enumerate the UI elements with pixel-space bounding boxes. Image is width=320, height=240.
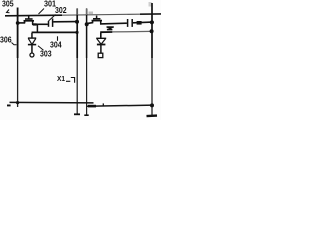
wire Q2 drain to C2 <box>100 22 127 25</box>
D2 cathode stem <box>100 45 102 53</box>
node wire N1 <box>32 31 78 33</box>
scan line right <box>140 13 161 15</box>
wire Q2 source to V3 <box>87 23 94 24</box>
column line V2 upper <box>76 9 78 59</box>
V2 foot <box>74 113 80 115</box>
leader from 302 <box>49 15 56 22</box>
C1 left plate <box>48 21 50 27</box>
Q1 gate stub <box>28 16 30 19</box>
D1 cathode bar <box>28 44 36 46</box>
rail B left blob <box>88 105 96 108</box>
small element under Q2 drain wire (hourglass) <box>107 26 114 30</box>
capacitor C1 (302) <box>49 19 53 27</box>
Q1 drain leg <box>32 21 34 24</box>
scan line 305 (horizontal) <box>5 14 62 17</box>
junction V2/node wire <box>75 31 78 34</box>
junction V1/rail A <box>16 101 19 104</box>
wire C1 to V2 <box>53 21 77 23</box>
diode D2 <box>96 38 106 53</box>
Q2 channel bar <box>92 20 103 22</box>
column line V2 lower <box>76 58 78 114</box>
leader from 306 <box>12 43 17 45</box>
Q2 gate bar <box>93 18 100 20</box>
junction V2/cap wire <box>75 20 79 24</box>
Q1 channel bar <box>24 20 35 22</box>
Q2 source leg <box>92 21 94 23</box>
transistor Q2 <box>92 16 103 24</box>
terminal circle under D1 <box>30 53 34 57</box>
leader from 301 <box>39 9 45 15</box>
blob on C2 wire <box>137 21 142 25</box>
V3 foot <box>84 114 88 116</box>
junction V4/rail B <box>150 103 154 107</box>
svg-text:306: 306 <box>0 35 12 44</box>
scan line middle (faint) <box>62 14 140 15</box>
C2 left plate <box>127 19 129 27</box>
node wire N2 <box>100 31 112 33</box>
D1 cathode stem <box>31 45 33 53</box>
junction V1/source wire <box>16 21 20 25</box>
D1 triangle right side <box>32 38 36 44</box>
svg-text:X1: X1 <box>57 74 66 83</box>
data line V1 (306) upper <box>17 8 19 59</box>
C2 right plate <box>131 19 133 27</box>
wire C2 to V4 <box>133 21 153 24</box>
D2 triangle right side <box>101 39 105 44</box>
svg-text:303: 303 <box>40 50 52 59</box>
junction V4/cap wire <box>150 20 154 24</box>
V2 top faint <box>76 9 78 15</box>
data line V1 (306) lower <box>17 58 19 107</box>
Q1 gate bar <box>25 18 33 20</box>
Q1 source leg <box>24 21 26 23</box>
V4 foot <box>146 114 157 117</box>
svg-text:305: 305 <box>2 0 14 9</box>
junction V3/source wire <box>85 22 89 26</box>
C1 right plate <box>52 19 54 27</box>
D2 cathode bar <box>97 44 106 46</box>
leader from 303 <box>38 46 44 51</box>
scan ghost near V4 top <box>149 2 152 7</box>
column line V3 lower <box>86 58 88 115</box>
rail A left dot <box>7 105 11 107</box>
scan ghost above line near V3 <box>89 12 94 15</box>
D1 triangle top bar <box>28 37 36 39</box>
terminal square under D2 <box>98 53 103 57</box>
junction V4/node wire <box>150 29 154 33</box>
Q2 gate stub <box>96 16 98 19</box>
node wire N2 faint extension to V4 <box>112 30 151 33</box>
column line V4 upper <box>151 3 153 58</box>
column line V4 lower <box>151 58 153 116</box>
branch wire down from drain wire <box>36 25 38 32</box>
D1 anode stem <box>31 33 33 38</box>
corner wire down to D2 <box>100 33 102 38</box>
transistor Q1 (301) <box>24 16 35 24</box>
wire Q1 source to V1 <box>17 22 25 24</box>
D2 triangle top bar <box>96 37 106 39</box>
column line V3 upper <box>86 9 88 59</box>
bottom rail B <box>87 105 153 106</box>
wire Q1 drain to C1 <box>32 23 48 25</box>
bottom rail A <box>10 101 94 104</box>
leader from 305 <box>7 10 10 13</box>
capacitor C2 <box>128 19 133 27</box>
V3 top faint <box>86 9 88 15</box>
X1 hook <box>71 78 75 83</box>
X1 dash <box>66 80 70 82</box>
svg-text:304: 304 <box>50 40 62 49</box>
Q2 drain leg <box>100 21 102 24</box>
blob on drain wire <box>33 23 37 25</box>
D1 triangle left side <box>28 38 31 44</box>
svg-text:302: 302 <box>55 6 67 15</box>
rail B tick <box>102 103 104 105</box>
diode D1 (303) <box>28 33 36 53</box>
leader from 304 <box>57 36 59 41</box>
D2 triangle left side <box>97 39 101 44</box>
